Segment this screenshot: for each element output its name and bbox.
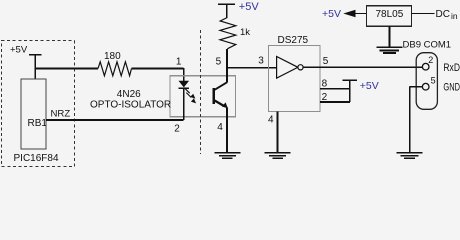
svg-text:DB9 COM1: DB9 COM1 xyxy=(403,39,452,50)
label PIC16F84 xyxy=(14,153,59,164)
svg-text:+5V: +5V xyxy=(10,45,28,56)
dashed enclosure PIC16F84 module xyxy=(2,41,75,167)
svg-text:RB1: RB1 xyxy=(28,118,48,129)
label DB9 COM1 xyxy=(403,39,452,50)
IC U1 PIC16F84 RB1 box xyxy=(21,79,47,149)
svg-text:1k: 1k xyxy=(240,27,250,38)
svg-text:4: 4 xyxy=(268,115,274,126)
wire DB9 pin 5 to ground xyxy=(410,87,423,153)
svg-text:2: 2 xyxy=(174,124,180,135)
svg-text:78L05: 78L05 xyxy=(376,9,404,20)
pin 2 label (DS275) xyxy=(322,92,328,103)
IC U3 DS275 box xyxy=(269,35,321,112)
label +5V (PIC side) xyxy=(10,45,28,56)
svg-text:+5V: +5V xyxy=(322,8,341,20)
node label NRZ xyxy=(51,108,71,119)
svg-text:1: 1 xyxy=(176,56,182,67)
svg-text:in: in xyxy=(451,11,458,21)
wire 78L05 ground stub xyxy=(389,26,391,46)
svg-text:RxD: RxD xyxy=(443,62,460,74)
pin 4 label (opto emitter) xyxy=(217,122,223,133)
phototransistor Q1 inside 4N26 xyxy=(214,76,228,109)
svg-text:5: 5 xyxy=(431,76,436,86)
wire DS275 pin 4 to ground xyxy=(277,112,279,153)
svg-text:+5V: +5V xyxy=(360,80,379,92)
wire DS275 pin 5 output to DB9 pin 2 xyxy=(303,66,422,68)
resistor R 180 xyxy=(98,51,132,76)
svg-text:5: 5 xyxy=(323,56,329,67)
pin 8 label (DS275 Vcc) xyxy=(322,79,328,90)
svg-text:PIC16F84: PIC16F84 xyxy=(14,153,59,164)
wire opto emitter pin 4 to ground xyxy=(226,108,228,153)
opto-isolator U2 4N26 package box xyxy=(170,76,235,117)
wire DCin to 78L05 xyxy=(412,13,435,15)
wire +5V node to resistor 180 xyxy=(34,68,98,70)
pin 3 label (DS275 input) xyxy=(258,56,264,67)
svg-text:3: 3 xyxy=(258,56,264,67)
LED inside 4N26 xyxy=(179,81,190,120)
svg-text:NRZ: NRZ xyxy=(51,108,71,119)
label +5V (78L05 output) xyxy=(322,8,341,20)
label DCin xyxy=(436,9,458,21)
power tick +5V (PIC side) xyxy=(29,55,42,79)
label GND xyxy=(443,81,460,93)
svg-text:4N26: 4N26 xyxy=(117,89,141,100)
wire 1k to opto collector pin 5 xyxy=(226,49,228,76)
DB9 pin 2 circle xyxy=(422,55,433,70)
power tick +5V (DS275 supply) xyxy=(342,79,357,81)
isolation barrier dashed line xyxy=(199,30,201,154)
connector J1 DB9 outline xyxy=(416,53,437,110)
svg-text:+5V: +5V xyxy=(239,1,260,13)
wire resistor 180 to opto pin 1 xyxy=(132,68,184,81)
power tick +5V above 1k xyxy=(218,4,235,18)
ground (opto emitter) xyxy=(214,153,240,159)
arrow +5V from 78L05 xyxy=(343,10,366,18)
resistor R 1k pull-up xyxy=(220,18,250,49)
svg-text:5: 5 xyxy=(216,56,222,67)
regulator U4 78L05 xyxy=(367,6,412,26)
inverter gate inside DS275 xyxy=(277,57,304,79)
svg-text:180: 180 xyxy=(104,51,121,62)
pin 1 label (opto anode) xyxy=(176,56,182,67)
label +5V (1k pull-up) xyxy=(239,1,260,13)
ground (DS275) xyxy=(265,153,291,159)
ground (78L05) xyxy=(377,47,403,53)
label +5V (DS275 supply) xyxy=(360,80,379,92)
ground (DB9 shell) xyxy=(397,153,423,159)
svg-text:8: 8 xyxy=(322,79,328,90)
wire collector node to DS275 pin 3 xyxy=(227,67,277,69)
pin 5 label (DS275 output) xyxy=(323,56,329,67)
svg-text:GND: GND xyxy=(443,81,460,93)
wire NRZ net RB1 to opto pin 2 xyxy=(46,119,184,121)
svg-text:DC: DC xyxy=(436,9,450,20)
label 4N26 OPTO-ISOLATOR xyxy=(90,89,171,111)
svg-text:2: 2 xyxy=(428,55,433,65)
wire DS275 pins 8 and 2 to +5V xyxy=(320,80,350,102)
LED emission arrows xyxy=(184,88,196,104)
svg-text:OPTO-ISOLATOR: OPTO-ISOLATOR xyxy=(90,100,171,111)
pin 5 label (opto collector) xyxy=(216,56,222,67)
pin 2 label (opto cathode) xyxy=(174,124,180,135)
DB9 pin 5 circle xyxy=(422,76,435,90)
svg-text:4: 4 xyxy=(217,122,223,133)
svg-text:DS275: DS275 xyxy=(278,35,309,46)
label RxD xyxy=(443,62,460,74)
pin 4 label (DS275 GND) xyxy=(268,115,274,126)
